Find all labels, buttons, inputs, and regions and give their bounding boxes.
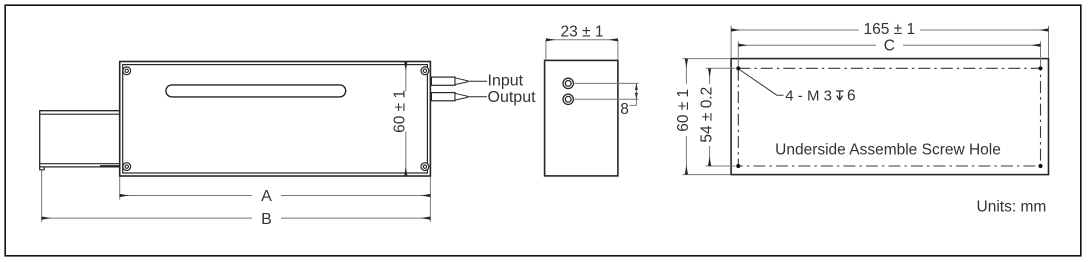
screw bottom-right (421, 163, 429, 171)
svg-text:A: A (261, 188, 272, 205)
svg-text:Output: Output (488, 89, 537, 106)
extension line A/B right (429, 177, 431, 222)
svg-text:23 ± 1: 23 ± 1 (561, 23, 604, 40)
svg-text:4 - M 3: 4 - M 3 (785, 87, 832, 104)
svg-text:6: 6 (847, 87, 856, 104)
svg-text:C: C (884, 38, 895, 55)
dimension 60±1 (right view) (675, 59, 692, 175)
screw hole dot top-left (736, 66, 740, 70)
extension lines 60±1 (right view) (683, 58, 731, 60)
callout 4 - M 3 (depth) 6 (785, 87, 855, 104)
screw-hole centerline dash-dot rect (738, 68, 1040, 166)
extension lines 165±1 (730, 26, 732, 58)
screw top-right (421, 67, 429, 75)
svg-text:60 ± 1: 60 ± 1 (392, 90, 409, 133)
input port hole (563, 78, 573, 88)
screw hole dot top-right (1038, 66, 1042, 70)
screw bottom-left (123, 163, 131, 171)
slot (stadium opening) (166, 85, 346, 97)
connector block top inner line (39, 113, 119, 115)
leader for screw hole callout (740, 70, 784, 96)
dimension 54±0.2 (698, 68, 715, 166)
screw hole dot bottom-right (1038, 164, 1042, 168)
screw hole dot bottom-left (736, 164, 740, 168)
dimension A (120, 188, 431, 205)
output port hole (563, 94, 573, 104)
fiber pigtail input (top) (431, 77, 487, 85)
dimension 60±1 (left view) (392, 62, 409, 176)
main box inner rect (123, 65, 428, 173)
fiber pigtail output (bottom) (431, 93, 487, 101)
extension lines for 8 (hole spacing) (574, 82, 639, 84)
underside body rect (731, 59, 1048, 175)
svg-text:Units: mm: Units: mm (977, 199, 1047, 216)
connector block left edge (39, 111, 41, 167)
svg-text:54 ± 0.2: 54 ± 0.2 (698, 87, 715, 143)
end view body (545, 60, 618, 175)
dimension 23±1 (546, 23, 618, 40)
svg-text:165 ± 1: 165 ± 1 (863, 21, 915, 38)
svg-text:8: 8 (620, 101, 629, 118)
extension line B left (41, 170, 43, 222)
extension line A left (119, 177, 121, 199)
svg-text:B: B (261, 211, 272, 228)
dimension B (42, 211, 431, 228)
svg-text:Underside Assemble Screw Hole: Underside Assemble Screw Hole (775, 142, 1001, 159)
dimension C (738, 38, 1040, 55)
svg-text:60 ± 1: 60 ± 1 (675, 89, 692, 132)
extension lines C (737, 42, 739, 67)
extension lines 54±0.2 (706, 67, 736, 69)
main box outer rect (120, 62, 431, 177)
connector hidden edge stub (100, 165, 120, 167)
connector block bottom outer line (39, 166, 119, 168)
svg-text:Input: Input (488, 72, 524, 89)
screw top-left (123, 67, 131, 75)
dimension 165±1 (731, 21, 1048, 38)
connector block top outer line (39, 110, 119, 112)
connector block bottom inner line (39, 163, 119, 165)
extension lines 23±1 (545, 40, 547, 60)
connector foot (40, 167, 45, 170)
dimension 8 (620, 83, 638, 118)
